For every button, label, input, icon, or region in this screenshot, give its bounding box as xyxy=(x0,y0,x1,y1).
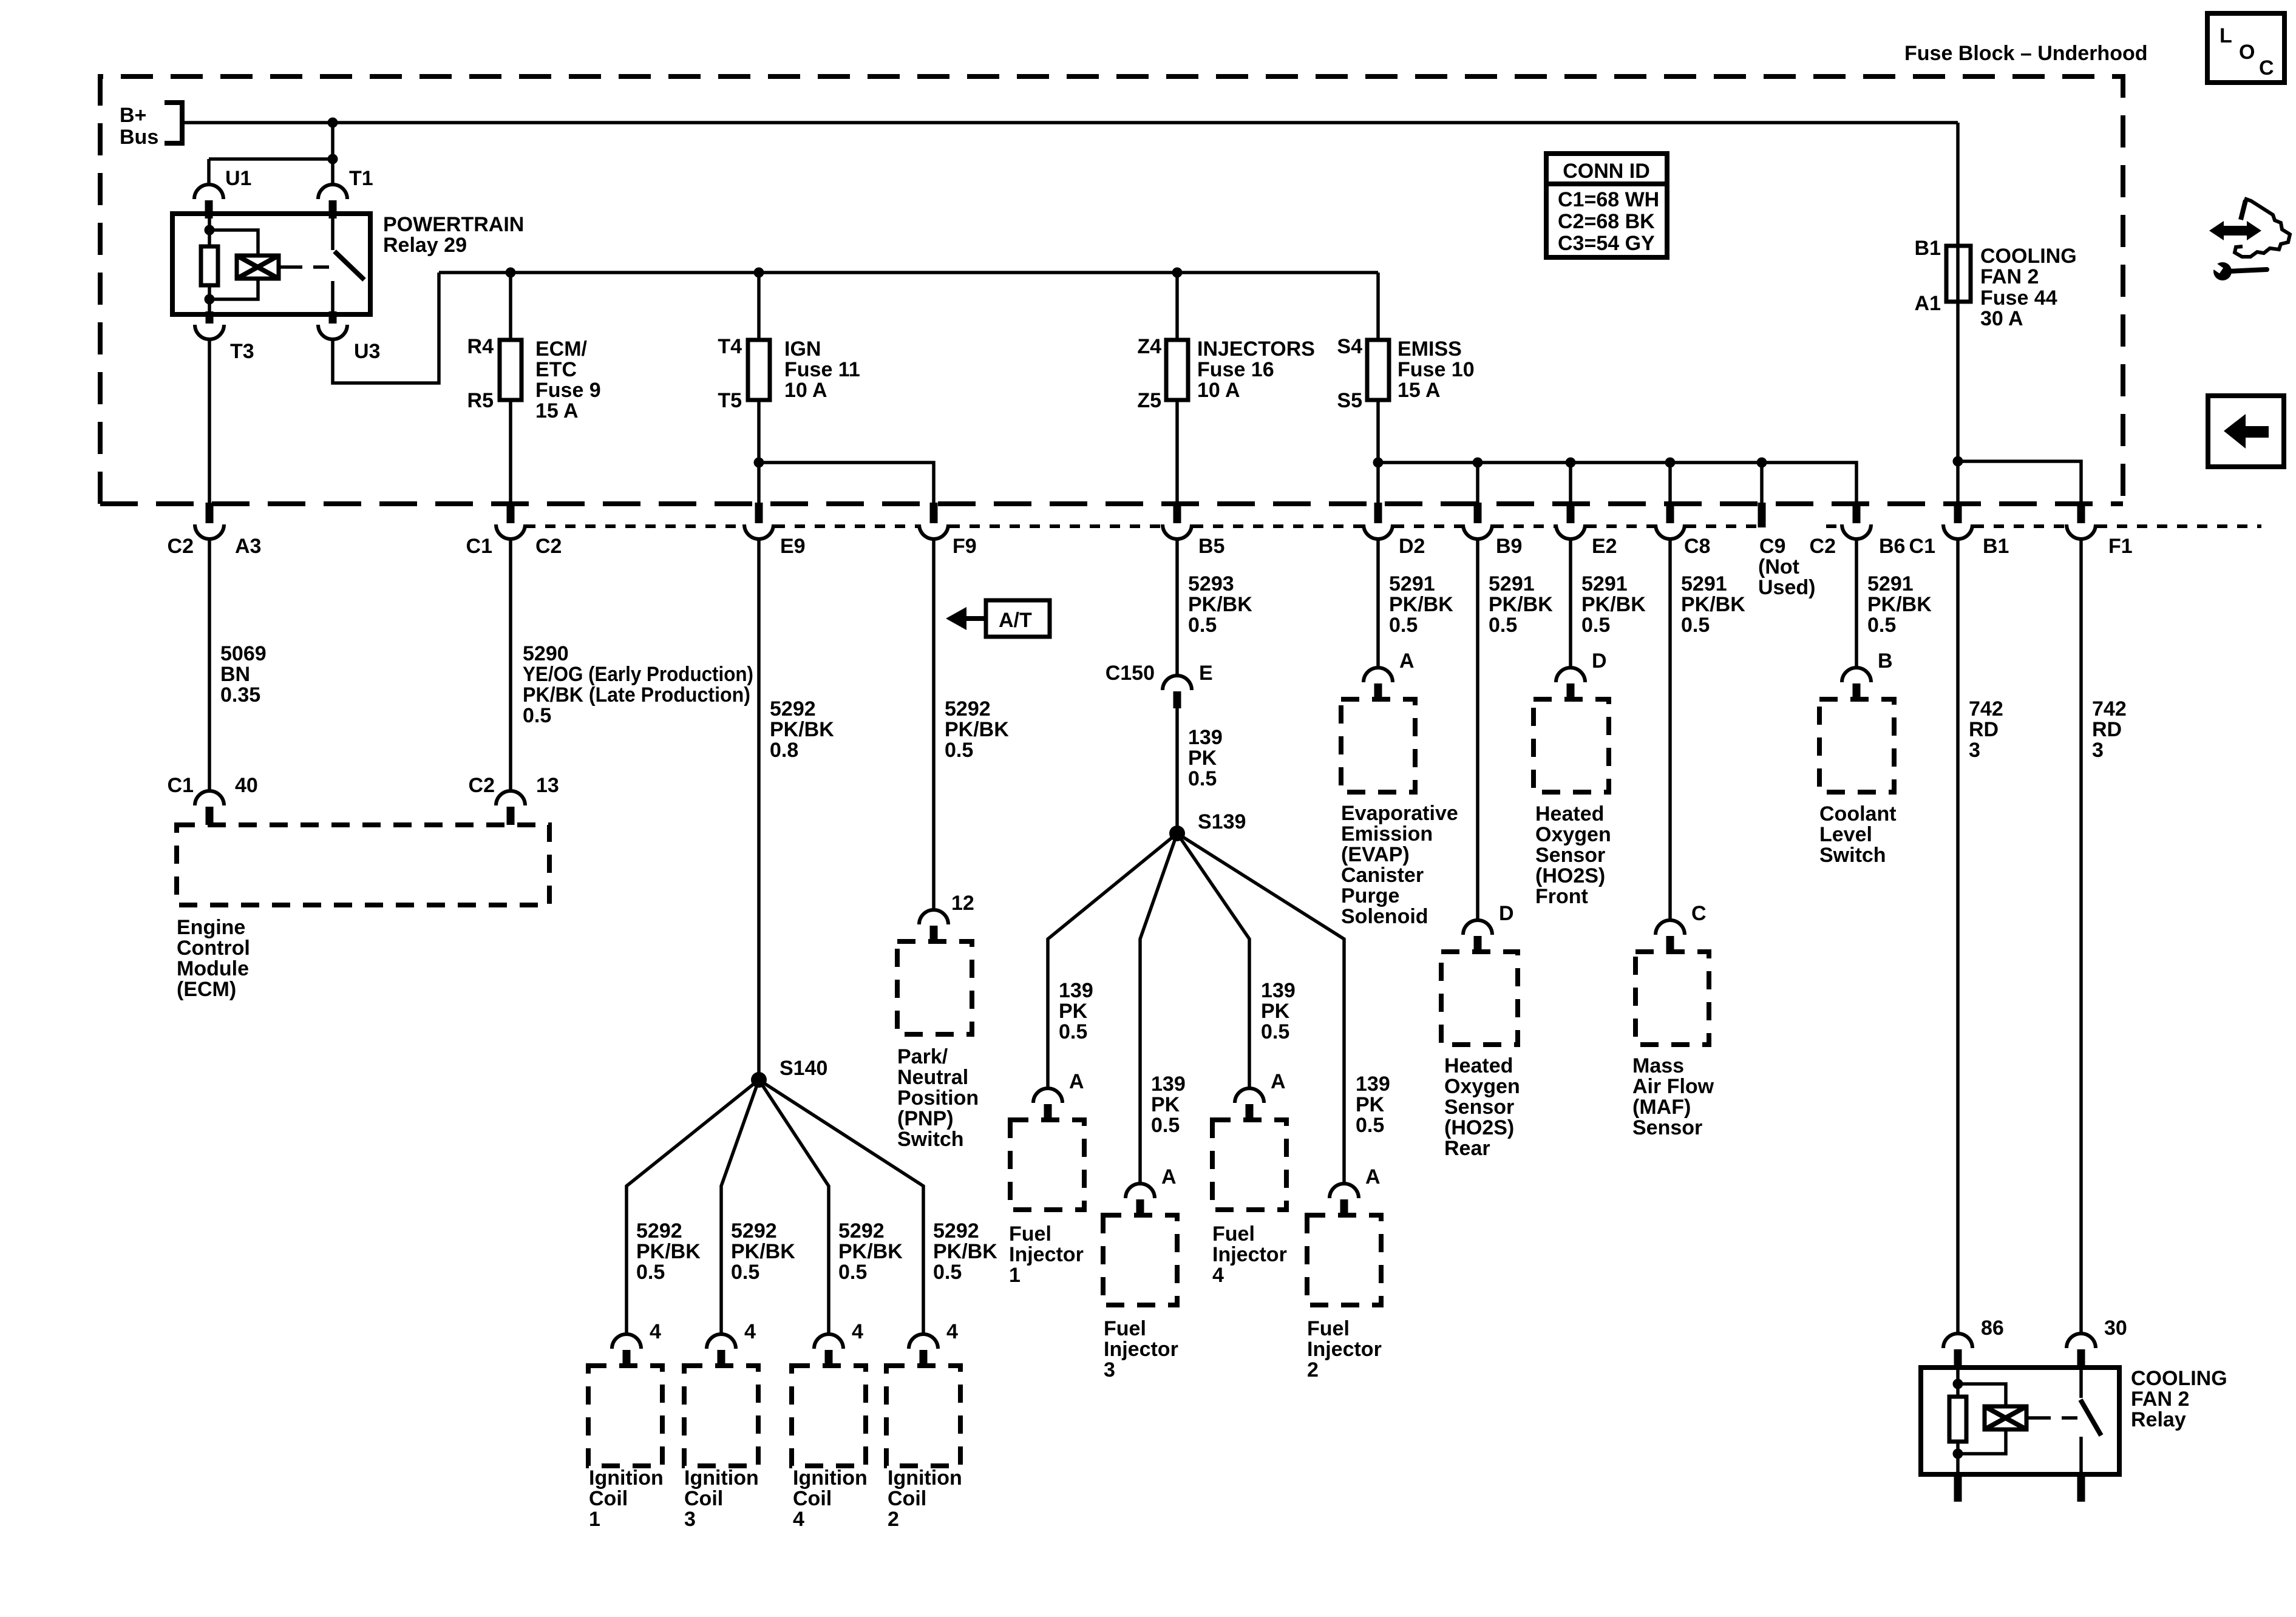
wire: U1 link xyxy=(209,157,333,161)
junction: EMISS tee origin xyxy=(1373,458,1384,468)
svg-text:Heated: Heated xyxy=(1535,802,1604,825)
svg-text:D: D xyxy=(1499,902,1514,925)
label D xyxy=(1499,902,1514,925)
svg-text:ECM/: ECM/ xyxy=(535,337,588,361)
label T5 xyxy=(718,389,742,412)
svg-text:0.5: 0.5 xyxy=(1489,614,1517,637)
svg-text:5290: 5290 xyxy=(523,642,569,665)
svg-text:0.5: 0.5 xyxy=(731,1261,759,1284)
svg-text:C2: C2 xyxy=(535,535,562,558)
icon: LOC reference box xyxy=(2207,13,2284,83)
wire 5290 to ECM xyxy=(509,538,512,791)
svg-text:Bus: Bus xyxy=(120,126,158,149)
label A xyxy=(1399,649,1415,673)
svg-text:C3=54 GY: C3=54 GY xyxy=(1558,232,1655,255)
svg-text:Fuse 10: Fuse 10 xyxy=(1398,358,1475,381)
svg-text:Module: Module xyxy=(177,957,249,980)
svg-text:0.5: 0.5 xyxy=(523,704,551,727)
svg-text:L: L xyxy=(2220,24,2232,47)
pin U1 connector xyxy=(194,185,223,219)
fuse F11: IGN Fuse 11 xyxy=(748,340,770,400)
svg-text:Heated: Heated xyxy=(1444,1054,1513,1077)
module U1: Engine Control Module (ECM) box xyxy=(177,825,549,905)
svg-text:Coil: Coil xyxy=(793,1487,832,1510)
svg-text:4: 4 xyxy=(744,1320,756,1343)
icon: back arrow box xyxy=(2208,396,2284,467)
svg-text:1: 1 xyxy=(1009,1264,1021,1287)
wire: C9 drop xyxy=(1760,463,1764,503)
svg-text:C: C xyxy=(1691,902,1707,925)
junction: relay coil top node xyxy=(205,225,215,236)
svg-text:PK/BK: PK/BK xyxy=(945,718,1009,741)
svg-text:5291: 5291 xyxy=(1681,572,1727,595)
relay U1: POWERTRAIN Relay 29 box xyxy=(172,214,370,314)
label C2 xyxy=(469,774,495,797)
label B xyxy=(1878,649,1893,673)
tag A/T box xyxy=(986,600,1050,637)
connector pin D (HO2S front) xyxy=(1556,668,1585,702)
fuse F16: INJECTORS Fuse 16 xyxy=(1166,340,1188,400)
wire 5069 BN to ECM xyxy=(208,538,211,791)
wire 5291 C8 to MAF xyxy=(1668,538,1672,920)
svg-text:C1: C1 xyxy=(1909,535,1935,558)
svg-text:Sensor: Sensor xyxy=(1632,1116,1702,1139)
label Mass Air Flow (MAF) Sensor xyxy=(1632,1054,1714,1139)
wire: T3 down to connector row xyxy=(208,339,211,503)
junction: feed to IGN fuse xyxy=(754,268,764,278)
svg-text:0.5: 0.5 xyxy=(838,1261,867,1284)
svg-text:C2: C2 xyxy=(469,774,495,797)
svg-text:Rear: Rear xyxy=(1444,1137,1490,1160)
splice S139 xyxy=(1169,825,1185,841)
svg-text:C9: C9 xyxy=(1759,535,1785,558)
label: Fuse Block - Underhood xyxy=(1904,42,2148,65)
wire: tee to F1 drop xyxy=(1958,461,2081,503)
svg-text:D: D xyxy=(1592,649,1607,673)
label wire 139 PK 0.5 (injector 2) xyxy=(1356,1073,1390,1137)
svg-text:EMISS: EMISS xyxy=(1398,337,1462,361)
connector pin 4 (coil 2) xyxy=(909,1334,938,1368)
label B5 xyxy=(1198,535,1224,558)
label C8 xyxy=(1684,535,1710,558)
svg-text:3: 3 xyxy=(1104,1358,1115,1381)
svg-text:A: A xyxy=(1271,1070,1286,1093)
svg-text:5291: 5291 xyxy=(1489,572,1535,595)
label B1 (fuse) xyxy=(1915,237,1941,260)
label EMISS Fuse 10 15 A xyxy=(1398,337,1475,402)
resistor: relay suppression resistor xyxy=(201,246,218,285)
resistor: relay suppression resistor xyxy=(1949,1397,1966,1442)
svg-text:Emission: Emission xyxy=(1341,822,1433,846)
junction: feed to INJECTORS fuse xyxy=(1172,268,1183,278)
wire: EMISS distribution tee xyxy=(1378,463,1856,503)
wire: relay 86 coil input xyxy=(1956,1368,1960,1397)
svg-text:C2: C2 xyxy=(168,535,194,558)
svg-text:COOLING: COOLING xyxy=(2131,1367,2227,1390)
wire: ECM fuse to row xyxy=(509,400,512,503)
label INJECTORS Fuse 16 10 A xyxy=(1197,337,1315,402)
svg-text:PK/BK: PK/BK xyxy=(838,1240,903,1263)
svg-text:Engine: Engine xyxy=(177,916,245,939)
connector pin D (HO2S rear) xyxy=(1463,920,1492,954)
wire 742 RD B1 to cooling fan relay 86 xyxy=(1956,538,1960,1334)
junction: U1 link to T1 xyxy=(328,154,338,164)
wire: EMISS fuse to tee xyxy=(1376,400,1380,503)
wire: fuse 44 to tee xyxy=(1956,300,1960,503)
svg-text:4: 4 xyxy=(793,1508,804,1531)
connector C9 (row, not used) xyxy=(1758,503,1766,527)
connector E2 (row) xyxy=(1556,503,1585,539)
connector pin C (MAF) xyxy=(1656,920,1685,954)
coil: Ignition Coil 3 box xyxy=(684,1366,758,1466)
label 4 xyxy=(852,1320,863,1343)
label C1 xyxy=(466,535,492,558)
svg-text:FAN 2: FAN 2 xyxy=(1980,265,2039,288)
svg-text:Park/: Park/ xyxy=(897,1045,948,1068)
svg-text:E9: E9 xyxy=(780,535,806,558)
svg-text:Sensor: Sensor xyxy=(1535,844,1605,867)
svg-text:Fuel: Fuel xyxy=(1307,1317,1350,1340)
svg-text:Coil: Coil xyxy=(589,1487,628,1510)
relay switch contact lower xyxy=(2079,1437,2083,1474)
label wire 5293 PK/BK 0.5 xyxy=(1188,572,1252,637)
wire: T1 drop xyxy=(331,123,335,186)
svg-text:B1: B1 xyxy=(1915,237,1941,260)
connector pin A (injector 2) xyxy=(1330,1184,1359,1218)
label wire 5291 PK/BK 0.5 xyxy=(1389,572,1453,637)
svg-text:PK/BK: PK/BK xyxy=(933,1240,997,1263)
switch S2: Coolant Level Switch box xyxy=(1819,699,1894,792)
label wire 139 PK 0.5 xyxy=(1188,726,1223,790)
label D xyxy=(1592,649,1607,673)
connector B6 (row) xyxy=(1842,503,1871,539)
label IGN Fuse 11 10 A xyxy=(784,337,860,402)
wire 139 PK to S139 xyxy=(1175,708,1179,826)
label wire 5292 PK/BK 0.5 (coil 1) xyxy=(636,1219,701,1284)
fuse block border: Fuse Block - Underhood xyxy=(100,76,2123,504)
svg-text:PK/BK: PK/BK xyxy=(1581,593,1646,616)
svg-text:C: C xyxy=(2259,56,2274,80)
svg-text:(Not: (Not xyxy=(1758,555,1799,578)
label F1 xyxy=(2108,535,2133,558)
relay switch contact upper xyxy=(2079,1368,2083,1398)
svg-text:ETC: ETC xyxy=(535,358,577,381)
svg-text:3: 3 xyxy=(2092,739,2104,762)
sensor: Mass Air Flow (MAF) Sensor box xyxy=(1635,952,1709,1045)
svg-text:PK/BK: PK/BK xyxy=(1681,593,1745,616)
label B1 xyxy=(1983,535,2009,558)
label wire 5291 PK/BK 0.5 xyxy=(1581,572,1646,637)
svg-text:POWERTRAIN: POWERTRAIN xyxy=(383,213,524,236)
connector E9 (row) xyxy=(744,503,773,539)
connector C2 pin (row, ECM fuse) xyxy=(496,503,525,539)
svg-text:A: A xyxy=(1161,1165,1177,1188)
label 4 xyxy=(744,1320,756,1343)
fuse F44: COOLING FAN 2 Fuse 44 xyxy=(1946,246,1971,302)
svg-text:5291: 5291 xyxy=(1867,572,1914,595)
coil: Ignition Coil 1 box xyxy=(588,1366,662,1466)
svg-text:PK/BK: PK/BK xyxy=(770,718,834,741)
svg-text:FAN 2: FAN 2 xyxy=(2131,1388,2189,1411)
svg-text:CONN ID: CONN ID xyxy=(1563,160,1650,183)
wire 5291 B9 to HO2S rear xyxy=(1476,538,1479,920)
svg-text:Ignition: Ignition xyxy=(888,1466,962,1490)
label A1 (fuse) xyxy=(1915,292,1941,315)
wire: coil armature link (dashed) xyxy=(2026,1416,2088,1420)
svg-text:4: 4 xyxy=(946,1320,958,1343)
svg-text:A3: A3 xyxy=(235,535,261,558)
svg-text:O: O xyxy=(2239,41,2255,64)
svg-text:Z5: Z5 xyxy=(1137,389,1161,412)
connector pin A (injector 3) xyxy=(1126,1184,1155,1218)
svg-text:(PNP): (PNP) xyxy=(897,1107,954,1130)
label E9 xyxy=(780,535,806,558)
svg-text:30: 30 xyxy=(2104,1317,2127,1340)
connector F1 (row) xyxy=(2067,503,2096,539)
wire: tee to F9 drop xyxy=(759,463,934,503)
svg-text:B+: B+ xyxy=(120,104,146,127)
svg-text:Mass: Mass xyxy=(1632,1054,1684,1077)
wire: fuse feed bus xyxy=(439,271,1378,274)
label B9 xyxy=(1496,535,1522,558)
wire: S139 branch to injector 4 xyxy=(1177,833,1249,1088)
connector pin 4 (coil 3) xyxy=(707,1334,736,1368)
junction: coil top node xyxy=(1953,1379,1963,1389)
wire: U1 drop xyxy=(207,159,211,186)
wire: coil branch bottom xyxy=(209,279,258,299)
connector B1 (row) xyxy=(1943,503,1972,539)
connector C8 (row) xyxy=(1656,503,1685,539)
svg-text:C2=68 BK: C2=68 BK xyxy=(1558,210,1655,233)
svg-text:E: E xyxy=(1199,662,1213,685)
svg-text:A: A xyxy=(1399,649,1415,673)
label B6 xyxy=(1879,535,1905,558)
svg-text:Air Flow: Air Flow xyxy=(1632,1075,1714,1098)
svg-text:Level: Level xyxy=(1819,823,1872,846)
label T1 xyxy=(349,167,373,190)
pin 85 stub (below relay) xyxy=(1954,1474,1962,1502)
node B+ Bus terminal bracket xyxy=(165,103,182,143)
label A xyxy=(1069,1070,1084,1093)
svg-text:1: 1 xyxy=(589,1508,600,1531)
svg-text:C1: C1 xyxy=(168,774,194,797)
svg-text:PK: PK xyxy=(1151,1093,1180,1116)
svg-text:INJECTORS: INJECTORS xyxy=(1197,337,1315,361)
svg-text:5069: 5069 xyxy=(220,642,267,665)
svg-text:139: 139 xyxy=(1356,1073,1390,1096)
connector pin A (injector 4) xyxy=(1235,1088,1264,1122)
svg-text:(EVAP): (EVAP) xyxy=(1341,843,1410,866)
label wire 139 PK 0.5 (injector 1) xyxy=(1059,979,1093,1043)
svg-text:Fuse 9: Fuse 9 xyxy=(535,379,601,402)
icon: component view with arrows and wrench xyxy=(2209,198,2290,280)
svg-text:40: 40 xyxy=(235,774,258,797)
svg-text:C2: C2 xyxy=(1810,535,1836,558)
wire 5291 B6 to coolant level switch xyxy=(1855,538,1858,668)
junction: tee to C9 xyxy=(1757,458,1767,468)
label Fuel Injector 1 xyxy=(1009,1222,1084,1287)
label 4 xyxy=(650,1320,661,1343)
label C2 xyxy=(535,535,562,558)
svg-text:0.5: 0.5 xyxy=(945,739,973,762)
wire 5292 E9 to S140 xyxy=(757,538,761,1073)
svg-text:(ECM): (ECM) xyxy=(177,978,236,1001)
label wire 5292 PK/BK 0.5 (coil 3) xyxy=(731,1219,795,1284)
connector pin B (coolant level) xyxy=(1842,668,1871,702)
svg-text:5293: 5293 xyxy=(1188,572,1234,595)
connector pin 12 (PNP) xyxy=(919,910,948,944)
junction: feed to ECM fuse xyxy=(506,268,516,278)
label A xyxy=(1271,1070,1286,1093)
label Engine Control Module (ECM) xyxy=(177,916,250,1001)
splice S140 xyxy=(751,1072,767,1088)
svg-text:Injector: Injector xyxy=(1307,1338,1382,1361)
svg-text:B9: B9 xyxy=(1496,535,1522,558)
label COOLING FAN 2 Relay xyxy=(2131,1367,2227,1431)
svg-text:PK/BK: PK/BK xyxy=(636,1240,701,1263)
label Ignition Coil 2 xyxy=(888,1466,962,1531)
svg-text:B6: B6 xyxy=(1879,535,1905,558)
svg-text:5292: 5292 xyxy=(945,697,991,720)
svg-text:A/T: A/T xyxy=(999,609,1032,632)
svg-text:RD: RD xyxy=(1969,718,1999,741)
svg-text:5292: 5292 xyxy=(770,697,816,720)
tag A/T arrow xyxy=(946,607,986,630)
svg-text:0.5: 0.5 xyxy=(1188,767,1217,790)
label wire 5292 PK/BK 0.5 (coil 2) xyxy=(933,1219,997,1284)
svg-text:R4: R4 xyxy=(467,335,494,358)
label C xyxy=(1691,902,1707,925)
svg-text:Fuel: Fuel xyxy=(1104,1317,1146,1340)
coil: Ignition Coil 4 box xyxy=(792,1366,866,1466)
label Evaporative Emission (EVAP) Canister Purge Solenoid xyxy=(1341,802,1458,928)
connector pin A (EVAP) xyxy=(1364,668,1393,702)
svg-text:YE/OG (Early Production): YE/OG (Early Production) xyxy=(523,663,753,686)
svg-text:Fuse 11: Fuse 11 xyxy=(784,358,860,381)
wire 5291 E2 to HO2S front xyxy=(1569,538,1572,668)
svg-text:T5: T5 xyxy=(718,389,742,412)
svg-text:30 A: 30 A xyxy=(1980,307,2023,330)
wire: coil branch top xyxy=(1958,1384,2006,1406)
table: CONN ID xyxy=(1546,154,1667,257)
svg-text:Fuel: Fuel xyxy=(1212,1222,1255,1246)
fuse F10: EMISS Fuse 10 xyxy=(1367,340,1389,400)
label Coolant Level Switch xyxy=(1819,802,1897,867)
wire: S140 branch to coil 4 xyxy=(759,1080,829,1334)
svg-text:U1: U1 xyxy=(225,167,251,190)
svg-text:Oxygen: Oxygen xyxy=(1444,1075,1520,1098)
relay switch blade xyxy=(2080,1400,2101,1436)
junction: tee to C8 xyxy=(1665,458,1676,468)
label A xyxy=(1161,1165,1177,1188)
svg-text:A: A xyxy=(1069,1070,1084,1093)
svg-text:742: 742 xyxy=(2092,697,2127,720)
svg-text:C1=68 WH: C1=68 WH xyxy=(1558,188,1659,211)
label wire 5290 YE/OG PK/BK 0.5 xyxy=(523,642,753,727)
svg-text:5291: 5291 xyxy=(1389,572,1435,595)
label Heated Oxygen Sensor (HO2S) Front xyxy=(1535,802,1611,908)
svg-text:E2: E2 xyxy=(1592,535,1617,558)
wire 742 RD F1 to cooling fan relay 30 xyxy=(2079,538,2083,1334)
wire: C8 drop xyxy=(1668,463,1672,503)
svg-text:Coil: Coil xyxy=(888,1487,926,1510)
harness connector dotted line C2 run xyxy=(525,524,1758,528)
svg-text:0.5: 0.5 xyxy=(933,1261,962,1284)
label S139 xyxy=(1198,810,1246,833)
svg-text:PK: PK xyxy=(1059,1000,1088,1023)
switch S1: Park/Neutral Position Switch box xyxy=(897,941,972,1034)
svg-text:BN: BN xyxy=(220,663,250,686)
connector C150 pin E xyxy=(1163,676,1192,708)
junction: relay coil bottom node xyxy=(205,294,215,305)
wire 5292 F9 to PNP switch xyxy=(932,538,936,910)
svg-text:Fuse 44: Fuse 44 xyxy=(1980,286,2057,310)
svg-text:86: 86 xyxy=(1981,1317,2004,1340)
svg-text:0.8: 0.8 xyxy=(770,739,798,762)
svg-text:C1: C1 xyxy=(466,535,492,558)
wire: IGN fuse drop xyxy=(757,273,761,340)
svg-text:Injector: Injector xyxy=(1104,1338,1178,1361)
wire: E2 drop xyxy=(1569,463,1572,503)
wire: coil branch bottom xyxy=(1958,1429,2006,1454)
label wire 5069 BN 0.35 xyxy=(220,642,267,707)
svg-text:S140: S140 xyxy=(779,1057,827,1080)
svg-text:(HO2S): (HO2S) xyxy=(1535,864,1605,887)
svg-text:Injector: Injector xyxy=(1009,1243,1084,1266)
svg-text:13: 13 xyxy=(536,774,559,797)
svg-text:T4: T4 xyxy=(718,335,742,358)
label 12 xyxy=(951,892,974,915)
label C150 xyxy=(1106,662,1155,685)
label U3 xyxy=(354,340,380,363)
svg-text:0.5: 0.5 xyxy=(1261,1020,1289,1043)
label S4 xyxy=(1337,335,1362,358)
label wire 5291 PK/BK 0.5 xyxy=(1489,572,1553,637)
relay coil winding xyxy=(237,256,279,279)
connector F9 (row) xyxy=(919,503,948,539)
svg-text:139: 139 xyxy=(1188,726,1223,749)
harness connector dotted line right run xyxy=(1826,524,2261,528)
relay switch contact lower xyxy=(331,281,335,314)
svg-text:Sensor: Sensor xyxy=(1444,1096,1514,1119)
label Fuel Injector 2 xyxy=(1307,1317,1382,1381)
svg-text:PK: PK xyxy=(1356,1093,1385,1116)
svg-text:D2: D2 xyxy=(1399,535,1425,558)
sensor: Heated Oxygen Sensor (HO2S) Front box xyxy=(1533,699,1609,792)
svg-text:3: 3 xyxy=(1969,739,1980,762)
connector pin 4 (coil 4) xyxy=(814,1334,843,1368)
wire: coil branch top xyxy=(209,230,258,256)
wire: S139 branch to injector 1 xyxy=(1048,833,1177,1088)
relay switch contact upper xyxy=(331,214,335,250)
svg-text:U3: U3 xyxy=(354,340,380,363)
svg-text:B5: B5 xyxy=(1198,535,1224,558)
label 86 xyxy=(1981,1317,2004,1340)
pin 87 stub (below relay) xyxy=(2077,1474,2085,1502)
label R5 xyxy=(467,389,494,412)
svg-text:PK/BK: PK/BK xyxy=(1188,593,1252,616)
svg-text:RD: RD xyxy=(2092,718,2122,741)
wire: INJECTORS fuse drop xyxy=(1175,273,1179,340)
connector C2 pin 13 (ECM) xyxy=(496,791,525,825)
svg-text:R5: R5 xyxy=(467,389,494,412)
svg-text:PK: PK xyxy=(1261,1000,1290,1023)
svg-text:0.5: 0.5 xyxy=(1356,1114,1384,1137)
connector D2 (row) xyxy=(1364,503,1393,539)
svg-text:0.5: 0.5 xyxy=(1059,1020,1087,1043)
svg-text:Z4: Z4 xyxy=(1137,335,1161,358)
svg-text:0.5: 0.5 xyxy=(1151,1114,1180,1137)
